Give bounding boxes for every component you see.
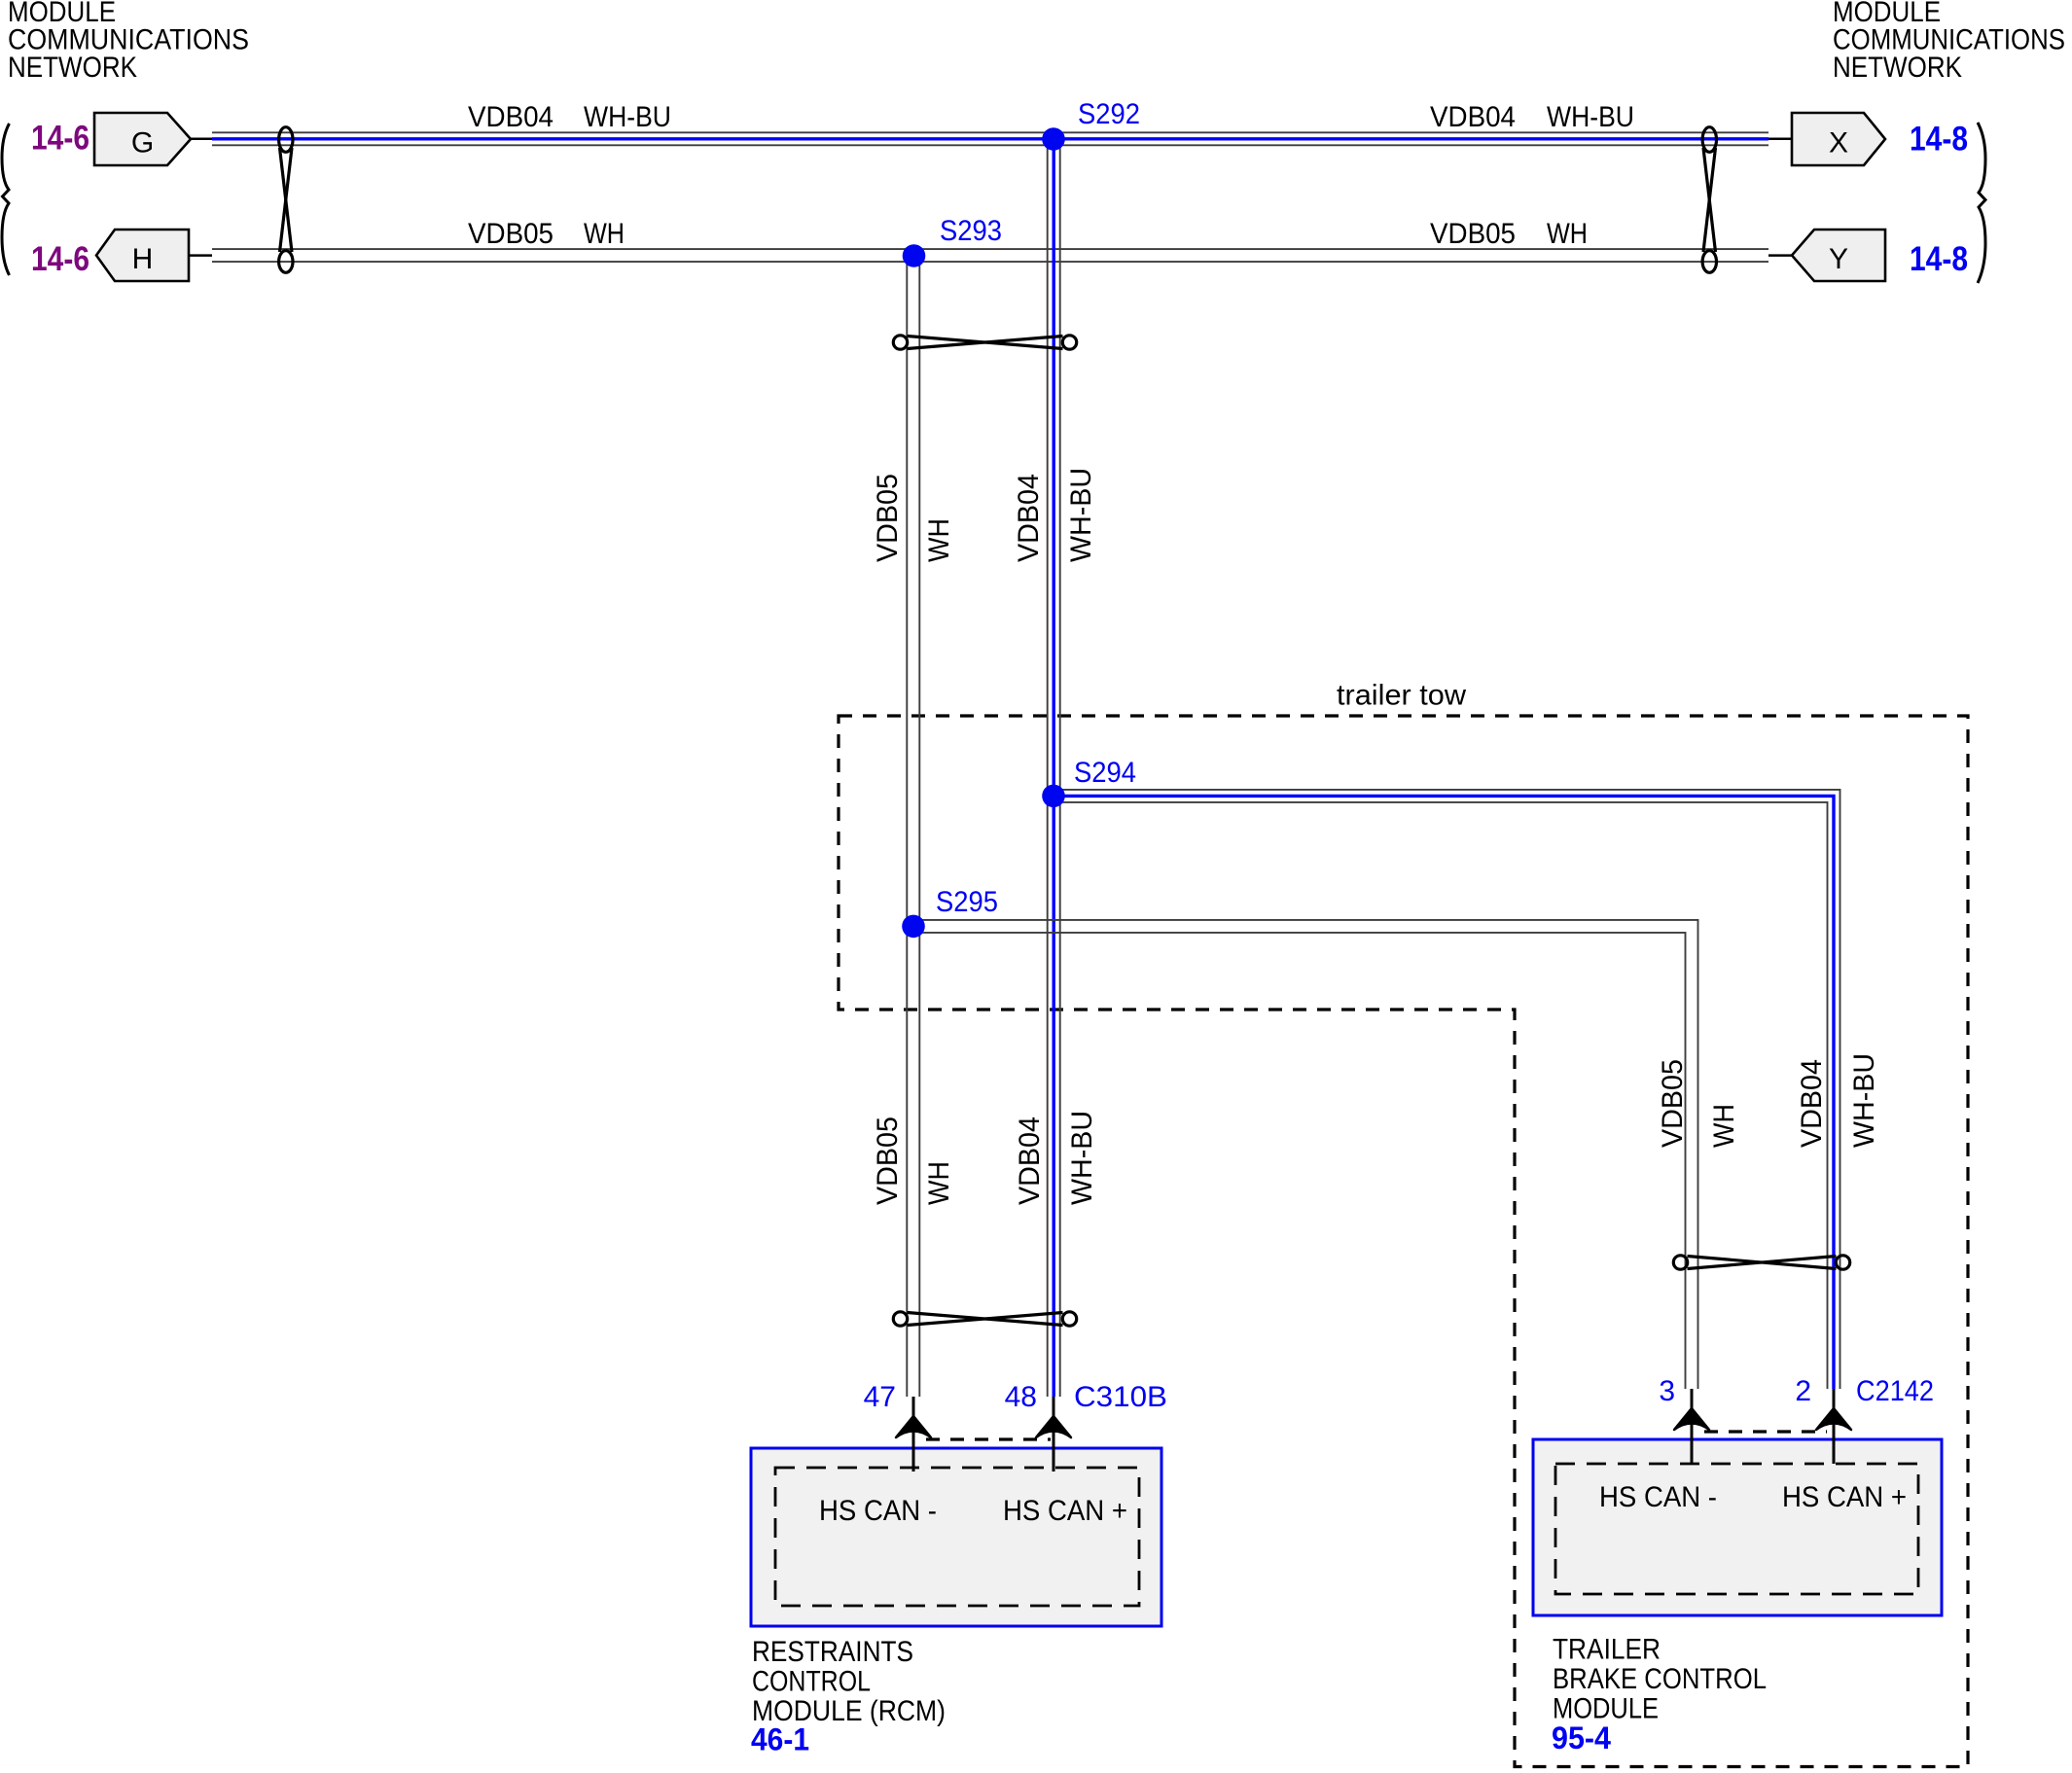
svg-text:14-6: 14-6: [31, 240, 89, 278]
svg-text:WH-BU: WH-BU: [584, 101, 671, 133]
svg-text:VDB04: VDB04: [1796, 1059, 1828, 1148]
svg-text:VDB05: VDB05: [872, 474, 904, 562]
svg-text:14-8: 14-8: [1910, 240, 1968, 278]
svg-text:VDB05: VDB05: [872, 1117, 904, 1205]
svg-text:X: X: [1829, 127, 1848, 160]
svg-text:NETWORK: NETWORK: [8, 52, 137, 84]
svg-text:14-8: 14-8: [1910, 121, 1968, 159]
svg-text:WH: WH: [1547, 218, 1588, 250]
svg-text:VDB05: VDB05: [468, 218, 554, 250]
svg-text:NETWORK: NETWORK: [1833, 52, 1962, 84]
svg-text:WH-BU: WH-BU: [1848, 1053, 1880, 1148]
svg-text:VDB04: VDB04: [1013, 474, 1045, 562]
svg-text:47: 47: [864, 1381, 896, 1413]
svg-text:VDB05: VDB05: [1657, 1059, 1689, 1148]
svg-text:H: H: [132, 243, 154, 275]
svg-text:BRAKE CONTROL: BRAKE CONTROL: [1553, 1663, 1767, 1695]
svg-text:WH-BU: WH-BU: [1547, 101, 1634, 133]
svg-text:WH-BU: WH-BU: [1065, 468, 1097, 562]
svg-text:48: 48: [1005, 1381, 1037, 1413]
svg-text:WH-BU: WH-BU: [1066, 1111, 1098, 1205]
svg-text:S293: S293: [940, 215, 1002, 247]
svg-text:G: G: [131, 127, 154, 160]
svg-text:TRAILER: TRAILER: [1553, 1634, 1661, 1666]
svg-text:46-1: 46-1: [751, 1722, 809, 1757]
svg-text:S292: S292: [1078, 98, 1140, 130]
svg-text:S295: S295: [936, 886, 998, 918]
svg-text:CONTROL: CONTROL: [752, 1666, 871, 1698]
svg-text:HS CAN +: HS CAN +: [1782, 1481, 1907, 1513]
svg-text:WH: WH: [923, 1161, 955, 1205]
svg-text:RESTRAINTS: RESTRAINTS: [752, 1636, 913, 1668]
svg-text:VDB04: VDB04: [1014, 1117, 1046, 1205]
svg-text:VDB05: VDB05: [1430, 218, 1516, 250]
svg-text:2: 2: [1795, 1375, 1811, 1407]
svg-text:HS CAN +: HS CAN +: [1003, 1495, 1127, 1527]
svg-text:HS CAN -: HS CAN -: [1599, 1481, 1717, 1513]
svg-text:C2142: C2142: [1856, 1375, 1934, 1407]
svg-text:S294: S294: [1074, 757, 1136, 789]
svg-text:VDB04: VDB04: [468, 101, 554, 133]
svg-text:VDB04: VDB04: [1430, 101, 1516, 133]
svg-text:C310B: C310B: [1074, 1381, 1167, 1413]
svg-text:WH: WH: [584, 218, 625, 250]
svg-text:Y: Y: [1829, 243, 1848, 275]
svg-text:trailer tow: trailer tow: [1337, 680, 1466, 712]
svg-text:HS CAN -: HS CAN -: [819, 1495, 937, 1527]
svg-text:95-4: 95-4: [1552, 1720, 1611, 1755]
svg-text:14-6: 14-6: [31, 120, 89, 158]
svg-text:3: 3: [1659, 1375, 1675, 1407]
svg-text:WH: WH: [1708, 1104, 1740, 1148]
svg-text:WH: WH: [923, 518, 955, 562]
